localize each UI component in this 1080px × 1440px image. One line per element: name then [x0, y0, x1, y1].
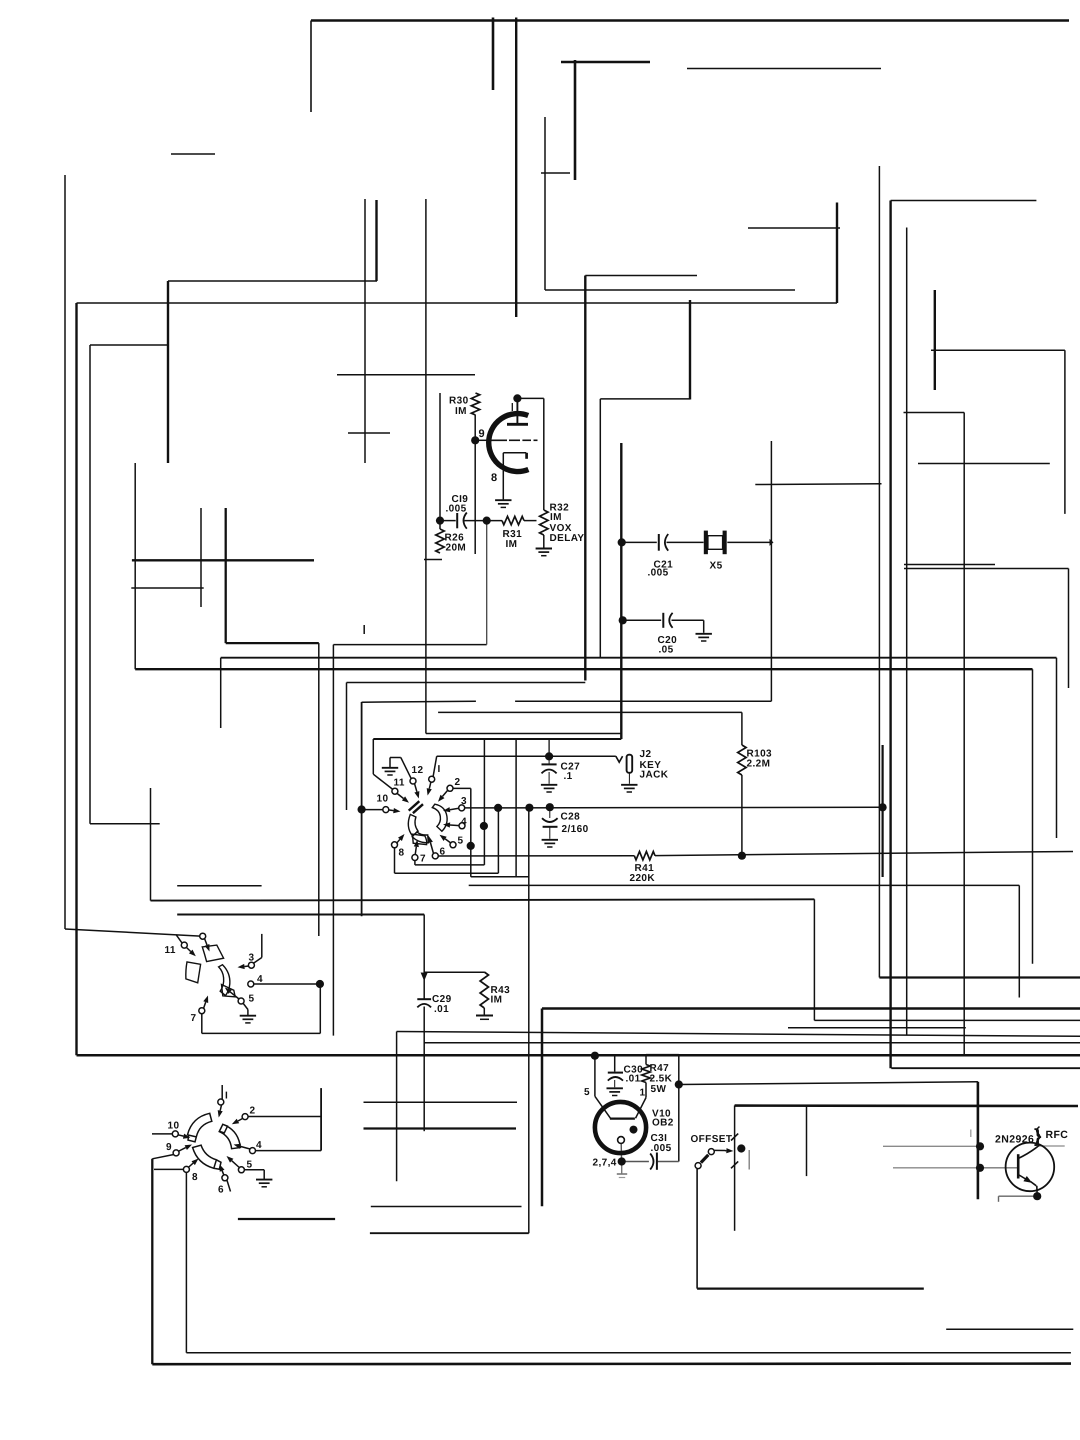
svg-text:7: 7 [420, 854, 426, 865]
svg-text:IM: IM [550, 512, 562, 523]
svg-text:5W: 5W [651, 1084, 667, 1095]
svg-text:IM: IM [455, 406, 467, 417]
svg-text:8: 8 [192, 1172, 198, 1183]
svg-text:.005: .005 [651, 1143, 672, 1154]
svg-text:OFFSET: OFFSET [691, 1134, 733, 1145]
svg-text:7: 7 [191, 1013, 197, 1024]
svg-text:20M: 20M [446, 543, 467, 554]
svg-text:2,7,4: 2,7,4 [593, 1158, 617, 1169]
svg-text:9: 9 [479, 428, 486, 440]
svg-text:5: 5 [584, 1087, 590, 1098]
svg-text:R47: R47 [650, 1063, 670, 1074]
svg-text:8: 8 [491, 472, 498, 484]
svg-text:3: 3 [249, 953, 255, 964]
svg-text:2: 2 [455, 777, 461, 788]
svg-text:C28: C28 [561, 812, 581, 823]
svg-text:5: 5 [249, 994, 255, 1005]
svg-text:}: } [1034, 1126, 1042, 1147]
svg-text:OB2: OB2 [652, 1118, 674, 1129]
svg-text:10: 10 [168, 1121, 180, 1132]
svg-text:.01: .01 [626, 1074, 641, 1085]
svg-text:3: 3 [461, 796, 467, 807]
svg-text:2.2M: 2.2M [747, 759, 771, 770]
svg-text:12: 12 [412, 765, 424, 776]
svg-text:.005: .005 [446, 504, 467, 515]
svg-text:DELAY: DELAY [550, 533, 585, 544]
svg-text:JACK: JACK [640, 770, 669, 781]
svg-text:11: 11 [394, 778, 405, 789]
svg-text:4: 4 [256, 1140, 262, 1151]
svg-text:R30: R30 [449, 396, 469, 407]
svg-text:6: 6 [440, 847, 446, 858]
svg-text:220K: 220K [630, 873, 656, 884]
svg-text:11: 11 [165, 945, 176, 956]
svg-text:4: 4 [257, 974, 263, 985]
svg-text:9: 9 [166, 1142, 172, 1153]
svg-text:.05: .05 [659, 645, 674, 656]
svg-text:X5: X5 [710, 561, 723, 572]
svg-text:2/160: 2/160 [562, 824, 589, 835]
svg-text:.005: .005 [648, 568, 669, 579]
svg-text:8: 8 [399, 848, 405, 859]
svg-text:10: 10 [377, 794, 389, 805]
svg-text:5: 5 [458, 836, 464, 847]
svg-text:4: 4 [461, 817, 467, 828]
svg-text:2N2926: 2N2926 [995, 1134, 1034, 1146]
svg-text:J2: J2 [640, 749, 652, 760]
svg-text:I: I [225, 1091, 228, 1102]
svg-text:5: 5 [247, 1160, 253, 1171]
svg-text:.1: .1 [564, 771, 573, 782]
svg-text:2: 2 [250, 1106, 256, 1117]
svg-text:1: 1 [640, 1088, 646, 1099]
svg-text:2.5K: 2.5K [650, 1074, 673, 1085]
svg-text:IM: IM [491, 995, 503, 1006]
svg-text:I: I [438, 764, 441, 775]
svg-text:RFC: RFC [1046, 1129, 1069, 1141]
svg-text:.01: .01 [434, 1004, 449, 1015]
svg-text:IM: IM [506, 539, 518, 550]
svg-text:6: 6 [218, 1185, 224, 1196]
